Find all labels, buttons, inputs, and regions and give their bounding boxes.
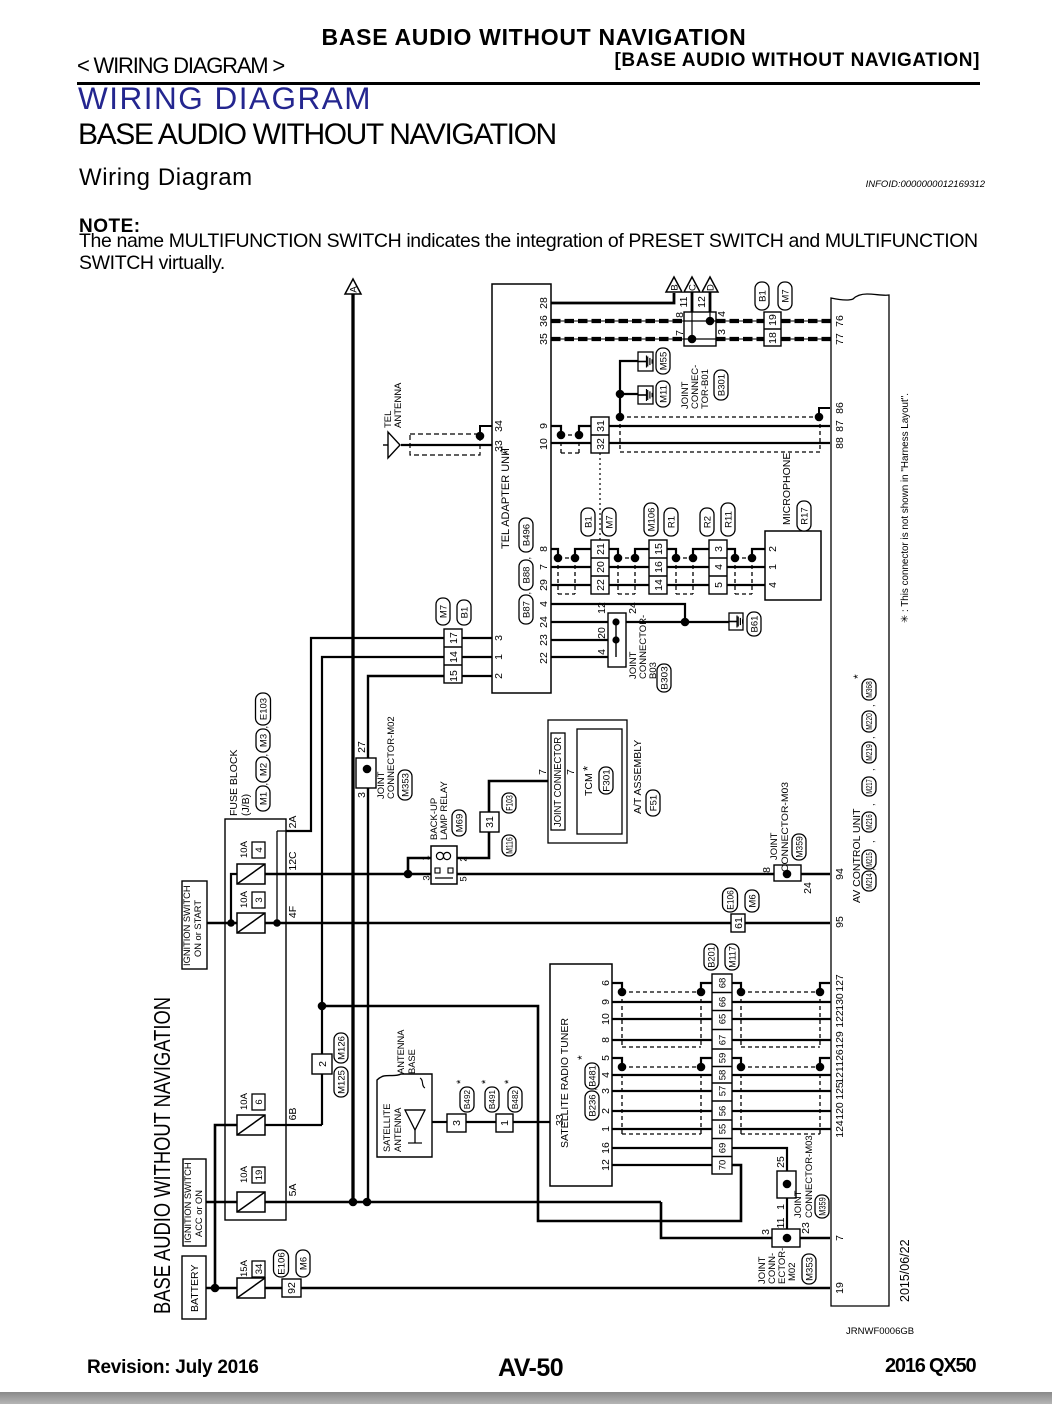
svg-text:10A: 10A xyxy=(239,1092,250,1110)
svg-text:24: 24 xyxy=(802,882,814,894)
svg-text:32: 32 xyxy=(595,438,607,450)
wire tuner pin 12 xyxy=(612,1164,712,1166)
wire battery riser to fuse 6 xyxy=(215,1125,237,1288)
svg-text:4: 4 xyxy=(713,564,725,570)
svg-text:BASE: BASE xyxy=(407,1049,417,1074)
wire trunk A vertical xyxy=(351,294,354,1202)
connector 2 M125/M126 xyxy=(312,1054,332,1074)
svg-text:16: 16 xyxy=(653,561,665,573)
svg-text:M353: M353 xyxy=(804,1257,815,1281)
connector labels B201 M117 xyxy=(704,944,718,970)
AV control unit box xyxy=(831,294,889,1306)
svg-text:4: 4 xyxy=(600,1072,612,1078)
svg-text:R17: R17 xyxy=(799,507,810,524)
ground B61 xyxy=(729,613,743,630)
wires to AV pins 87 88 xyxy=(609,425,830,427)
wire antenna feed xyxy=(432,1121,447,1123)
svg-text:CONNECTOR-M03: CONNECTOR-M03 xyxy=(804,1135,815,1218)
junction dot battery riser xyxy=(211,1284,220,1293)
joint connector M359 pins 8/24 xyxy=(774,865,801,881)
fuse 6 10A xyxy=(237,1115,265,1135)
svg-text:3: 3 xyxy=(493,635,505,641)
connector 61 E106/M6 xyxy=(731,914,745,932)
joint connector M353 pins 11/3/23 to AV pin 7 xyxy=(772,1229,800,1247)
svg-text:M216: M216 xyxy=(865,814,874,830)
svg-text:M117: M117 xyxy=(727,946,738,968)
wire tuner pin 16 to M359 xyxy=(612,1147,712,1149)
svg-text:JRNWF0006GB: JRNWF0006GB xyxy=(846,1326,914,1337)
connector labels M7 B1 xyxy=(436,598,450,625)
node D triangle xyxy=(702,277,718,292)
svg-text:34: 34 xyxy=(493,420,505,432)
connector 3 B492 xyxy=(447,1114,466,1132)
svg-text:10: 10 xyxy=(600,1013,612,1025)
svg-text:*: * xyxy=(575,1055,589,1060)
svg-text:88: 88 xyxy=(834,437,846,449)
fuse 4 10A xyxy=(237,864,265,884)
svg-text:*: * xyxy=(580,766,595,771)
connector column B201/M117 cells 68-70 xyxy=(712,974,732,1174)
svg-text:IGNITION SWITCH: IGNITION SWITCH xyxy=(182,885,192,966)
svg-text:16: 16 xyxy=(600,1142,612,1154)
svg-text:R2: R2 xyxy=(702,516,713,528)
svg-text:M359: M359 xyxy=(794,836,805,858)
svg-text:124: 124 xyxy=(834,1120,846,1138)
svg-text:JOINT CONNECTOR: JOINT CONNECTOR xyxy=(553,737,564,827)
svg-text:M02: M02 xyxy=(787,1263,798,1281)
svg-text:M214: M214 xyxy=(865,873,874,889)
svg-text:LAMP RELAY: LAMP RELAY xyxy=(439,781,450,840)
svg-text:2: 2 xyxy=(600,1108,612,1114)
svg-text:,: , xyxy=(259,783,269,786)
svg-text:M353: M353 xyxy=(400,773,411,797)
svg-text:4: 4 xyxy=(538,601,550,607)
wire pin 10 xyxy=(551,442,591,444)
svg-text:*: * xyxy=(480,1079,492,1084)
svg-text:,: , xyxy=(522,592,532,595)
svg-text:M2: M2 xyxy=(258,763,269,776)
fuse 19 10A xyxy=(237,1192,265,1212)
svg-text:23: 23 xyxy=(538,634,550,646)
svg-text:121: 121 xyxy=(834,1066,846,1084)
svg-text:M106: M106 xyxy=(646,508,657,532)
svg-text:E103: E103 xyxy=(258,698,269,720)
connector B1/M7 pins 19/18 xyxy=(764,312,781,346)
node A (page connector triangle) xyxy=(345,279,361,294)
fuse 34 15A xyxy=(237,1278,265,1298)
svg-text:BASE AUDIO WITHOUT NAVIGATION: BASE AUDIO WITHOUT NAVIGATION xyxy=(149,997,175,1314)
ground labels M55 M11 xyxy=(656,348,670,374)
svg-text:28: 28 xyxy=(538,297,550,309)
svg-text:10A: 10A xyxy=(239,890,250,908)
svg-text:86: 86 xyxy=(834,402,846,414)
svg-text:C: C xyxy=(688,284,699,291)
svg-text:,: , xyxy=(866,704,876,707)
svg-text:6: 6 xyxy=(254,1099,265,1104)
connector cells 31/32 xyxy=(591,417,609,453)
wire pin 1 riser to connector M125 xyxy=(322,657,444,1054)
junction dot trunk A on 5A xyxy=(349,1198,358,1207)
svg-text:3: 3 xyxy=(254,897,265,902)
svg-text:ANTENNA: ANTENNA xyxy=(396,1029,406,1074)
svg-text:,: , xyxy=(866,840,876,843)
svg-text:M11: M11 xyxy=(658,385,669,403)
svg-text:B201: B201 xyxy=(706,946,717,968)
svg-text:B491: B491 xyxy=(488,1089,497,1109)
svg-text:125: 125 xyxy=(834,1082,846,1100)
svg-text:M368: M368 xyxy=(865,681,874,698)
svg-text:M217: M217 xyxy=(865,779,874,794)
svg-text:M215: M215 xyxy=(865,852,874,867)
svg-text:58: 58 xyxy=(717,1070,728,1081)
svg-text:BATTERY: BATTERY xyxy=(189,1265,201,1312)
svg-text:19: 19 xyxy=(767,314,779,326)
joint connector F301 box xyxy=(551,733,565,830)
ignition switch ON or START box xyxy=(182,881,207,969)
svg-text:F51: F51 xyxy=(648,795,659,811)
svg-text:FUSE BLOCK: FUSE BLOCK xyxy=(228,749,240,816)
svg-text:CONNECTOR-M02: CONNECTOR-M02 xyxy=(386,716,397,799)
svg-text:E106: E106 xyxy=(725,890,736,910)
junction dot M353 riser on 5A xyxy=(363,1198,372,1207)
svg-text:JOINT: JOINT xyxy=(793,1190,804,1218)
svg-text:1: 1 xyxy=(499,1120,511,1126)
svg-text:SATELLITE RADIO TUNER: SATELLITE RADIO TUNER xyxy=(559,1018,571,1148)
svg-text:M126: M126 xyxy=(336,1036,347,1060)
svg-text:34: 34 xyxy=(254,1264,265,1275)
connector labels B1 M7 M106 R1 R2 R11 xyxy=(581,508,595,536)
connector 1 B491/B482 xyxy=(496,1114,513,1132)
svg-text:1: 1 xyxy=(775,1204,787,1210)
svg-text:69: 69 xyxy=(717,1143,728,1154)
svg-text:B1: B1 xyxy=(583,516,594,528)
svg-text:22: 22 xyxy=(538,652,550,664)
wire pin 3 to fuse block 2A xyxy=(286,638,444,831)
svg-text:12: 12 xyxy=(596,602,608,614)
svg-text:TEL ADAPTER UNIT: TEL ADAPTER UNIT xyxy=(500,446,512,549)
svg-text:8: 8 xyxy=(538,546,550,552)
svg-text:4: 4 xyxy=(767,582,779,588)
joint connector B303 box xyxy=(608,613,626,667)
svg-text:TCM: TCM xyxy=(583,773,595,796)
satellite antenna box xyxy=(377,1074,432,1157)
svg-text:126: 126 xyxy=(834,1049,846,1067)
svg-text:M220: M220 xyxy=(865,713,874,730)
svg-text:B1: B1 xyxy=(757,290,768,302)
svg-text:2: 2 xyxy=(767,546,779,552)
svg-text:M219: M219 xyxy=(865,744,874,761)
TCM unit F301 xyxy=(577,729,622,834)
tel adapter unit box B87/B88/B496 xyxy=(492,284,551,693)
svg-text:M6: M6 xyxy=(747,894,758,907)
svg-text:*: * xyxy=(455,1079,467,1084)
svg-text:59: 59 xyxy=(717,1053,728,1064)
ignition switch ACC or ON box xyxy=(183,1159,206,1246)
svg-text:3: 3 xyxy=(760,1229,772,1235)
svg-text:10A: 10A xyxy=(239,1165,250,1183)
svg-text:MICROPHONE: MICROPHONE xyxy=(781,453,793,525)
wire ignition ON/START to fuses xyxy=(207,922,237,925)
svg-text:87: 87 xyxy=(834,420,846,432)
svg-text:18: 18 xyxy=(767,332,779,344)
svg-text:B87: B87 xyxy=(521,601,532,618)
svg-text:AV CONTROL UNIT: AV CONTROL UNIT xyxy=(851,808,863,903)
svg-text:A/T ASSEMBLY: A/T ASSEMBLY xyxy=(632,740,644,814)
svg-text:B1: B1 xyxy=(459,607,470,619)
svg-text:92: 92 xyxy=(286,1282,298,1294)
svg-text:15: 15 xyxy=(448,670,460,682)
wire relay pin 5 to AV pin 94 xyxy=(457,873,774,875)
wire pin 2 riser through M353 xyxy=(368,676,444,1202)
svg-text:130: 130 xyxy=(834,993,846,1011)
svg-text:D: D xyxy=(706,284,717,291)
svg-text:25: 25 xyxy=(775,1156,787,1168)
svg-text:36: 36 xyxy=(538,315,550,327)
svg-text:3: 3 xyxy=(716,329,728,335)
svg-text:,: , xyxy=(259,726,269,729)
wire 4F to AV pin 95 xyxy=(265,922,731,924)
svg-text:,: , xyxy=(588,1088,598,1091)
svg-text:3: 3 xyxy=(600,1088,612,1094)
svg-text:22: 22 xyxy=(595,579,607,591)
back-up lamp relay M69 xyxy=(431,846,457,884)
svg-text:M125: M125 xyxy=(336,1070,347,1094)
svg-text:1: 1 xyxy=(600,1126,612,1132)
svg-text:(J/B): (J/B) xyxy=(240,794,252,816)
svg-text:3: 3 xyxy=(421,875,432,880)
ground M11 xyxy=(638,386,653,404)
wire ignition ACC to fuse 19 xyxy=(206,1201,237,1204)
node C triangle xyxy=(684,277,700,292)
svg-text:R11: R11 xyxy=(723,511,734,528)
svg-text:M359: M359 xyxy=(817,1197,828,1216)
svg-text:127: 127 xyxy=(834,974,846,992)
wires pins 4/24/23/22 to joint connector B303 xyxy=(551,604,685,622)
svg-text:B496: B496 xyxy=(521,524,532,546)
satellite radio tuner box B236/B481 xyxy=(550,964,612,1186)
svg-text:R1: R1 xyxy=(666,516,677,528)
microphone signal wires 8/7/29 xyxy=(551,549,558,558)
ground M55 xyxy=(638,352,653,371)
wire node C stem pin 11 xyxy=(691,292,694,312)
svg-text:17: 17 xyxy=(448,632,460,644)
joint connector M359 pins 25/1 xyxy=(777,1171,796,1198)
svg-text:31: 31 xyxy=(484,816,496,828)
svg-text:19: 19 xyxy=(254,1170,265,1181)
svg-text:122: 122 xyxy=(834,1010,846,1028)
wire node D stem pin 12 xyxy=(709,292,712,312)
svg-text:7: 7 xyxy=(537,769,549,775)
svg-text:TOR-B01: TOR-B01 xyxy=(700,369,711,409)
svg-text:5: 5 xyxy=(713,582,725,588)
svg-text:7: 7 xyxy=(565,769,577,775)
svg-text:66: 66 xyxy=(717,997,728,1008)
connector 31 M116/F103 xyxy=(480,812,499,832)
svg-text:3: 3 xyxy=(713,546,725,552)
svg-text:3: 3 xyxy=(451,1120,463,1126)
svg-text:4: 4 xyxy=(254,847,265,852)
svg-text:M7: M7 xyxy=(604,515,615,528)
svg-text:SATELLITE: SATELLITE xyxy=(382,1104,392,1152)
svg-text:9: 9 xyxy=(600,999,612,1005)
svg-text:B492: B492 xyxy=(463,1089,472,1109)
svg-text:77: 77 xyxy=(834,333,846,345)
svg-text:,: , xyxy=(259,754,269,757)
svg-text:CONNECTOR-M03: CONNECTOR-M03 xyxy=(780,782,791,872)
svg-text:2015/06/22: 2015/06/22 xyxy=(898,1239,912,1302)
svg-text:67: 67 xyxy=(717,1035,728,1046)
microphone unit R17 xyxy=(765,531,821,600)
fuse block J/B box M1/M2/M3/E103 xyxy=(225,819,286,1220)
svg-text:68: 68 xyxy=(717,978,728,989)
svg-text:6B: 6B xyxy=(287,1108,299,1121)
svg-text:2A: 2A xyxy=(287,816,299,829)
wire pin 9 with shield drain dots xyxy=(551,426,561,435)
svg-text:4F: 4F xyxy=(287,906,299,918)
svg-text:120: 120 xyxy=(834,1102,846,1120)
connector labels B1 M7 xyxy=(755,282,769,310)
svg-text:5: 5 xyxy=(600,1055,612,1061)
node B triangle xyxy=(666,277,682,292)
wire to grounds M55 M11 xyxy=(620,361,638,417)
svg-text:B301: B301 xyxy=(716,374,727,396)
svg-text:ON or START: ON or START xyxy=(193,900,203,957)
svg-text:4: 4 xyxy=(716,311,728,317)
svg-text:1: 1 xyxy=(420,855,431,860)
mic inline connectors 21/20/22 15/16/14 3/4/5 xyxy=(591,540,609,594)
svg-text:5: 5 xyxy=(458,876,469,881)
svg-text:95: 95 xyxy=(834,916,846,928)
svg-text:10A: 10A xyxy=(239,840,250,858)
svg-text:31: 31 xyxy=(595,420,607,432)
wire 5A to joint connector M353 and AV pin 7 xyxy=(265,1201,661,1204)
svg-text:B236: B236 xyxy=(587,1094,598,1116)
svg-text:129: 129 xyxy=(834,1031,846,1049)
svg-text:A: A xyxy=(349,286,360,293)
svg-text:B481: B481 xyxy=(587,1065,598,1087)
svg-text:M116: M116 xyxy=(504,837,515,854)
svg-text:12C: 12C xyxy=(287,851,299,871)
svg-text:14: 14 xyxy=(448,651,460,663)
svg-text:M6: M6 xyxy=(298,1257,309,1270)
svg-text:21: 21 xyxy=(595,543,607,555)
connector cells 17/14/15 M7/B1 xyxy=(444,629,462,683)
svg-text:7: 7 xyxy=(538,564,550,570)
junction dot relay feed xyxy=(404,870,413,879)
svg-text:3: 3 xyxy=(356,792,368,798)
svg-text:12: 12 xyxy=(696,296,708,308)
shield dashed boxes xyxy=(621,992,623,1047)
svg-text:M69: M69 xyxy=(454,814,465,832)
svg-text:*: * xyxy=(503,1079,515,1084)
svg-text:M3: M3 xyxy=(258,734,269,747)
svg-text:20: 20 xyxy=(596,627,608,639)
shielded wires pins 36 and 35 to AV 76/77 xyxy=(551,320,684,322)
svg-text:,: , xyxy=(866,768,876,771)
connector labels B87 B88 B496 xyxy=(519,595,533,624)
svg-text:29: 29 xyxy=(538,579,550,591)
svg-text:7: 7 xyxy=(674,330,686,336)
svg-text:,: , xyxy=(866,736,876,739)
svg-text:24: 24 xyxy=(627,602,639,614)
svg-text:M1: M1 xyxy=(258,792,269,805)
svg-text:6: 6 xyxy=(600,980,612,986)
svg-text:4: 4 xyxy=(596,649,608,655)
svg-text:2: 2 xyxy=(493,673,505,679)
svg-text:,: , xyxy=(866,803,876,806)
svg-text:57: 57 xyxy=(717,1086,728,1097)
svg-text:5A: 5A xyxy=(287,1184,299,1197)
svg-text:7: 7 xyxy=(834,1235,846,1241)
svg-text:23: 23 xyxy=(800,1222,812,1234)
A/T assembly F51 outer box xyxy=(548,720,627,843)
svg-text:33: 33 xyxy=(493,440,505,452)
svg-text:10: 10 xyxy=(538,438,550,450)
connector labels B492 B491 B482 xyxy=(460,1087,474,1112)
wire 12C to back-up lamp relay xyxy=(265,873,408,876)
svg-text:B303: B303 xyxy=(659,666,670,690)
svg-text:55: 55 xyxy=(717,1124,728,1135)
shield drain wire to AV pin 86 xyxy=(620,416,819,418)
fuse 3 10A xyxy=(237,913,265,933)
svg-text:35: 35 xyxy=(538,333,550,345)
svg-text:2: 2 xyxy=(317,1061,329,1067)
svg-text:ACC or ON: ACC or ON xyxy=(194,1190,204,1237)
svg-text:19: 19 xyxy=(834,1282,846,1294)
tuner audio wires with shield drains to AV unit xyxy=(612,983,622,992)
battery box xyxy=(182,1256,206,1319)
svg-text:15A: 15A xyxy=(239,1259,250,1277)
svg-text:70: 70 xyxy=(717,1160,728,1171)
wire relay pin 2 to TCM pin 7 xyxy=(457,781,551,858)
svg-text:9: 9 xyxy=(538,423,550,429)
svg-text:24: 24 xyxy=(538,616,550,628)
svg-text:14: 14 xyxy=(653,579,665,591)
joint connector B301 box xyxy=(684,312,716,346)
wire battery to AV pin 19 xyxy=(301,1287,830,1290)
fuse block internal 2A feed xyxy=(276,831,278,923)
svg-text:F301: F301 xyxy=(601,769,612,792)
joint connector M353 pins 27/3 xyxy=(356,758,376,788)
svg-text:,: , xyxy=(866,868,876,871)
svg-text:11: 11 xyxy=(775,1217,787,1228)
wire antenna shield drain pin 34 xyxy=(480,426,492,436)
svg-text:94: 94 xyxy=(834,868,846,880)
svg-text:27: 27 xyxy=(356,741,368,753)
svg-text:F103: F103 xyxy=(504,795,515,811)
wire battery feed xyxy=(206,1287,237,1290)
wire tel antenna lead pin 33 xyxy=(401,444,492,446)
svg-text:ANTENNA: ANTENNA xyxy=(393,1107,403,1152)
svg-text:M7: M7 xyxy=(780,289,791,302)
svg-text:ANTENNA: ANTENNA xyxy=(393,382,404,428)
svg-text:20: 20 xyxy=(595,561,607,573)
svg-text:8: 8 xyxy=(674,312,686,318)
svg-text:M7: M7 xyxy=(438,605,449,618)
svg-text:B61: B61 xyxy=(749,616,760,633)
svg-text:11: 11 xyxy=(678,296,690,307)
svg-text:B482: B482 xyxy=(511,1089,520,1109)
svg-text:12: 12 xyxy=(600,1159,612,1171)
svg-text:E106: E106 xyxy=(276,1252,287,1275)
wire tuner pin 12 long path to M125 riser xyxy=(322,1006,741,1221)
svg-text:33: 33 xyxy=(554,1114,566,1126)
connector 92 E106/M6 xyxy=(282,1279,301,1297)
svg-text:1: 1 xyxy=(767,564,779,570)
svg-text:JOINT: JOINT xyxy=(769,832,780,860)
wire pin 28 to node B xyxy=(551,293,674,303)
svg-text:8: 8 xyxy=(761,867,773,873)
